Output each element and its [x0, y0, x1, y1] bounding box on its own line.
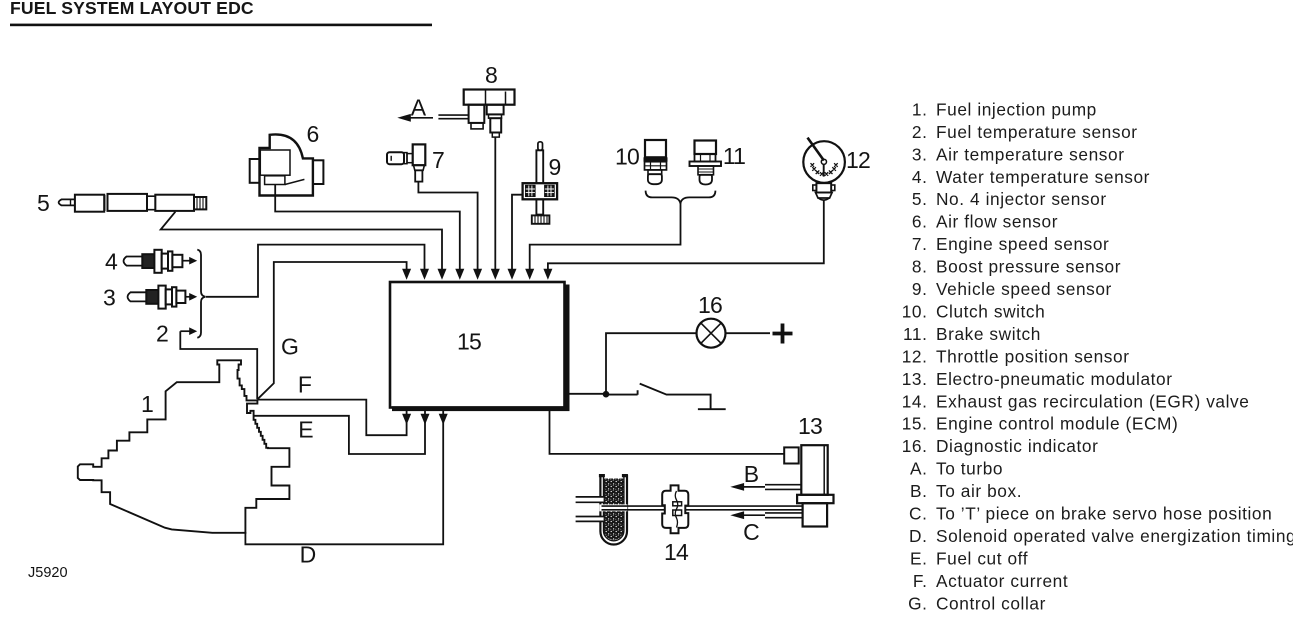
wire lamp to battery plus — [726, 332, 771, 334]
capsule pipes — [576, 497, 604, 501]
svg-text:8: 8 — [485, 62, 497, 88]
No.4 injector sensor 5 — [59, 194, 207, 212]
arrow A to turbo — [397, 114, 433, 122]
svg-text:14: 14 — [664, 539, 689, 565]
svg-text:1.: 1. — [912, 99, 928, 119]
EGR valve 14 — [662, 485, 688, 533]
svg-text:F: F — [298, 372, 312, 398]
air temperature sensor 3 — [128, 286, 198, 309]
main pipe from capsule through 14 to 13 — [602, 506, 803, 510]
wire from vehicle speed sensor 9 to ECM arrow 7 — [512, 195, 523, 270]
pipe A from sensor 8 — [438, 115, 468, 119]
water temperature sensor 4 — [124, 250, 198, 273]
wire D: ECM solenoid valve timing to pump — [245, 411, 443, 544]
svg-text:5.: 5. — [912, 189, 928, 209]
svg-text:12: 12 — [846, 147, 870, 173]
air flow sensor 6 — [250, 134, 324, 195]
svg-text:A.: A. — [910, 459, 928, 479]
wire from sensor 2 to pump junction — [180, 331, 257, 399]
svg-text:Air flow sensor: Air flow sensor — [936, 212, 1058, 232]
pipe B from 13 — [765, 485, 801, 490]
fuel injection pump 1 (engine outline) — [78, 360, 290, 533]
wire from brace of 3/4/2 to ECM arrow 2 — [206, 245, 425, 297]
wire from injector 5 to ECM arrow 3 — [161, 212, 442, 270]
svg-text:Actuator current: Actuator current — [936, 571, 1068, 591]
svg-text:To air box.: To air box. — [936, 481, 1022, 501]
svg-text:Throttle position sensor: Throttle position sensor — [936, 346, 1130, 366]
svg-text:13.: 13. — [902, 369, 928, 389]
wire E: ECM fuel cut off to pump — [254, 411, 425, 454]
wire from boost sensor 8 to ECM arrow 6 — [494, 137, 496, 270]
fuel temperature sensor 2 arrow — [180, 327, 197, 335]
switch to ground — [606, 384, 726, 410]
svg-text:7: 7 — [432, 147, 444, 173]
wire from engine speed sensor 7 to ECM arrow 5 — [418, 182, 477, 270]
svg-text:8.: 8. — [912, 257, 928, 277]
wire ECM to modulator 13 — [550, 411, 786, 454]
vacuum reservoir capsule of 14 — [599, 475, 628, 545]
svg-text:FUEL SYSTEM LAYOUT EDC: FUEL SYSTEM LAYOUT EDC — [10, 0, 254, 18]
svg-text:7.: 7. — [912, 234, 928, 254]
svg-text:C: C — [743, 519, 759, 545]
diagnostic indicator lamp 16 — [697, 319, 726, 348]
svg-text:Fuel temperature sensor: Fuel temperature sensor — [936, 122, 1138, 142]
svg-text:Control collar: Control collar — [936, 593, 1046, 613]
svg-text:D.: D. — [909, 526, 927, 546]
svg-text:Fuel cut off: Fuel cut off — [936, 548, 1028, 568]
junction dot — [603, 391, 610, 398]
svg-text:15.: 15. — [902, 414, 928, 434]
svg-text:Clutch switch: Clutch switch — [936, 302, 1045, 322]
svg-text:E: E — [298, 417, 313, 443]
wire from air flow sensor 6 to ECM arrow 4 — [275, 185, 460, 271]
svg-text:Water temperature sensor: Water temperature sensor — [936, 167, 1150, 187]
svg-text:G.: G. — [908, 593, 927, 613]
arrow C to brake servo T piece — [730, 511, 765, 519]
svg-text:Brake switch: Brake switch — [936, 324, 1041, 344]
svg-text:2.: 2. — [912, 122, 928, 142]
svg-text:B: B — [744, 461, 759, 487]
svg-text:4: 4 — [105, 249, 118, 275]
svg-text:Solenoid operated valve energi: Solenoid operated valve energization tim… — [936, 526, 1293, 546]
brake switch 11 — [690, 141, 722, 185]
battery plus symbol — [773, 324, 793, 344]
svg-text:16.: 16. — [902, 436, 928, 456]
svg-text:Engine speed sensor: Engine speed sensor — [936, 234, 1109, 254]
svg-text:15: 15 — [457, 329, 481, 355]
svg-text:9: 9 — [549, 154, 561, 180]
pipe C from 13 — [765, 513, 803, 518]
wire G from pump junction to ECM arrow 1 — [257, 262, 406, 399]
svg-text:A: A — [411, 95, 427, 121]
title underline — [10, 24, 432, 27]
svg-text:9.: 9. — [912, 279, 928, 299]
svg-text:E.: E. — [910, 548, 928, 568]
svg-text:12.: 12. — [902, 346, 928, 366]
vehicle speed sensor 9 — [523, 142, 558, 224]
boost pressure sensor 8 — [464, 90, 515, 138]
svg-text:1: 1 — [141, 391, 153, 417]
svg-text:To turbo: To turbo — [936, 459, 1003, 479]
svg-text:Boost pressure sensor: Boost pressure sensor — [936, 257, 1121, 277]
svg-text:6: 6 — [307, 121, 319, 147]
clutch switch 10 — [644, 140, 668, 184]
svg-text:10.: 10. — [902, 302, 928, 322]
svg-text:F.: F. — [913, 571, 928, 591]
svg-text:Vehicle speed sensor: Vehicle speed sensor — [936, 279, 1112, 299]
svg-text:B.: B. — [910, 481, 928, 501]
electro-pneumatic modulator 13 — [784, 445, 833, 526]
wire from throttle sensor 12 to ECM arrow 9 — [548, 200, 824, 270]
svg-text:4.: 4. — [912, 167, 928, 187]
svg-text:Engine control module (ECM): Engine control module (ECM) — [936, 414, 1178, 434]
wire ECM right to diagnostic circuit — [568, 333, 697, 394]
svg-text:11.: 11. — [903, 324, 927, 344]
svg-text:J5920: J5920 — [28, 565, 68, 581]
brace gathering 4/3/2 — [197, 250, 205, 338]
svg-text:3: 3 — [103, 285, 115, 311]
wire from clutch/brake switches to ECM arrow 8 — [530, 203, 681, 271]
wire F: ECM to pump actuator — [257, 400, 406, 436]
svg-text:C.: C. — [909, 504, 927, 524]
svg-text:Fuel injection pump: Fuel injection pump — [936, 99, 1097, 119]
output arrowheads below ECM — [402, 414, 448, 425]
svg-text:No. 4 injector sensor: No. 4 injector sensor — [936, 189, 1107, 209]
svg-text:5: 5 — [37, 190, 49, 216]
svg-text:6.: 6. — [912, 212, 928, 232]
svg-text:11: 11 — [723, 143, 745, 169]
ECM U15 box — [390, 282, 570, 411]
svg-text:Electro-pneumatic modulator: Electro-pneumatic modulator — [936, 369, 1173, 389]
engine speed sensor 7 — [387, 144, 425, 181]
brace gathering 10/11 — [646, 191, 716, 204]
svg-text:Diagnostic indicator: Diagnostic indicator — [936, 436, 1098, 456]
input arrowheads on ECM top — [402, 269, 552, 280]
svg-text:16: 16 — [698, 292, 722, 318]
svg-text:Exhaust gas recirculation (EGR: Exhaust gas recirculation (EGR) valve — [936, 391, 1249, 411]
svg-text:10: 10 — [615, 144, 639, 170]
svg-text:2: 2 — [156, 321, 168, 347]
svg-text:3.: 3. — [912, 144, 928, 164]
arrow B to air box — [730, 483, 765, 491]
svg-text:14.: 14. — [902, 391, 928, 411]
svg-text:13: 13 — [798, 413, 822, 439]
svg-text:D: D — [300, 542, 316, 568]
svg-text:Air temperature sensor: Air temperature sensor — [936, 144, 1125, 164]
throttle position sensor 12 — [803, 138, 845, 201]
svg-text:To ’T’ piece on brake servo ho: To ’T’ piece on brake servo hose positio… — [936, 504, 1272, 524]
svg-text:G: G — [281, 334, 298, 360]
